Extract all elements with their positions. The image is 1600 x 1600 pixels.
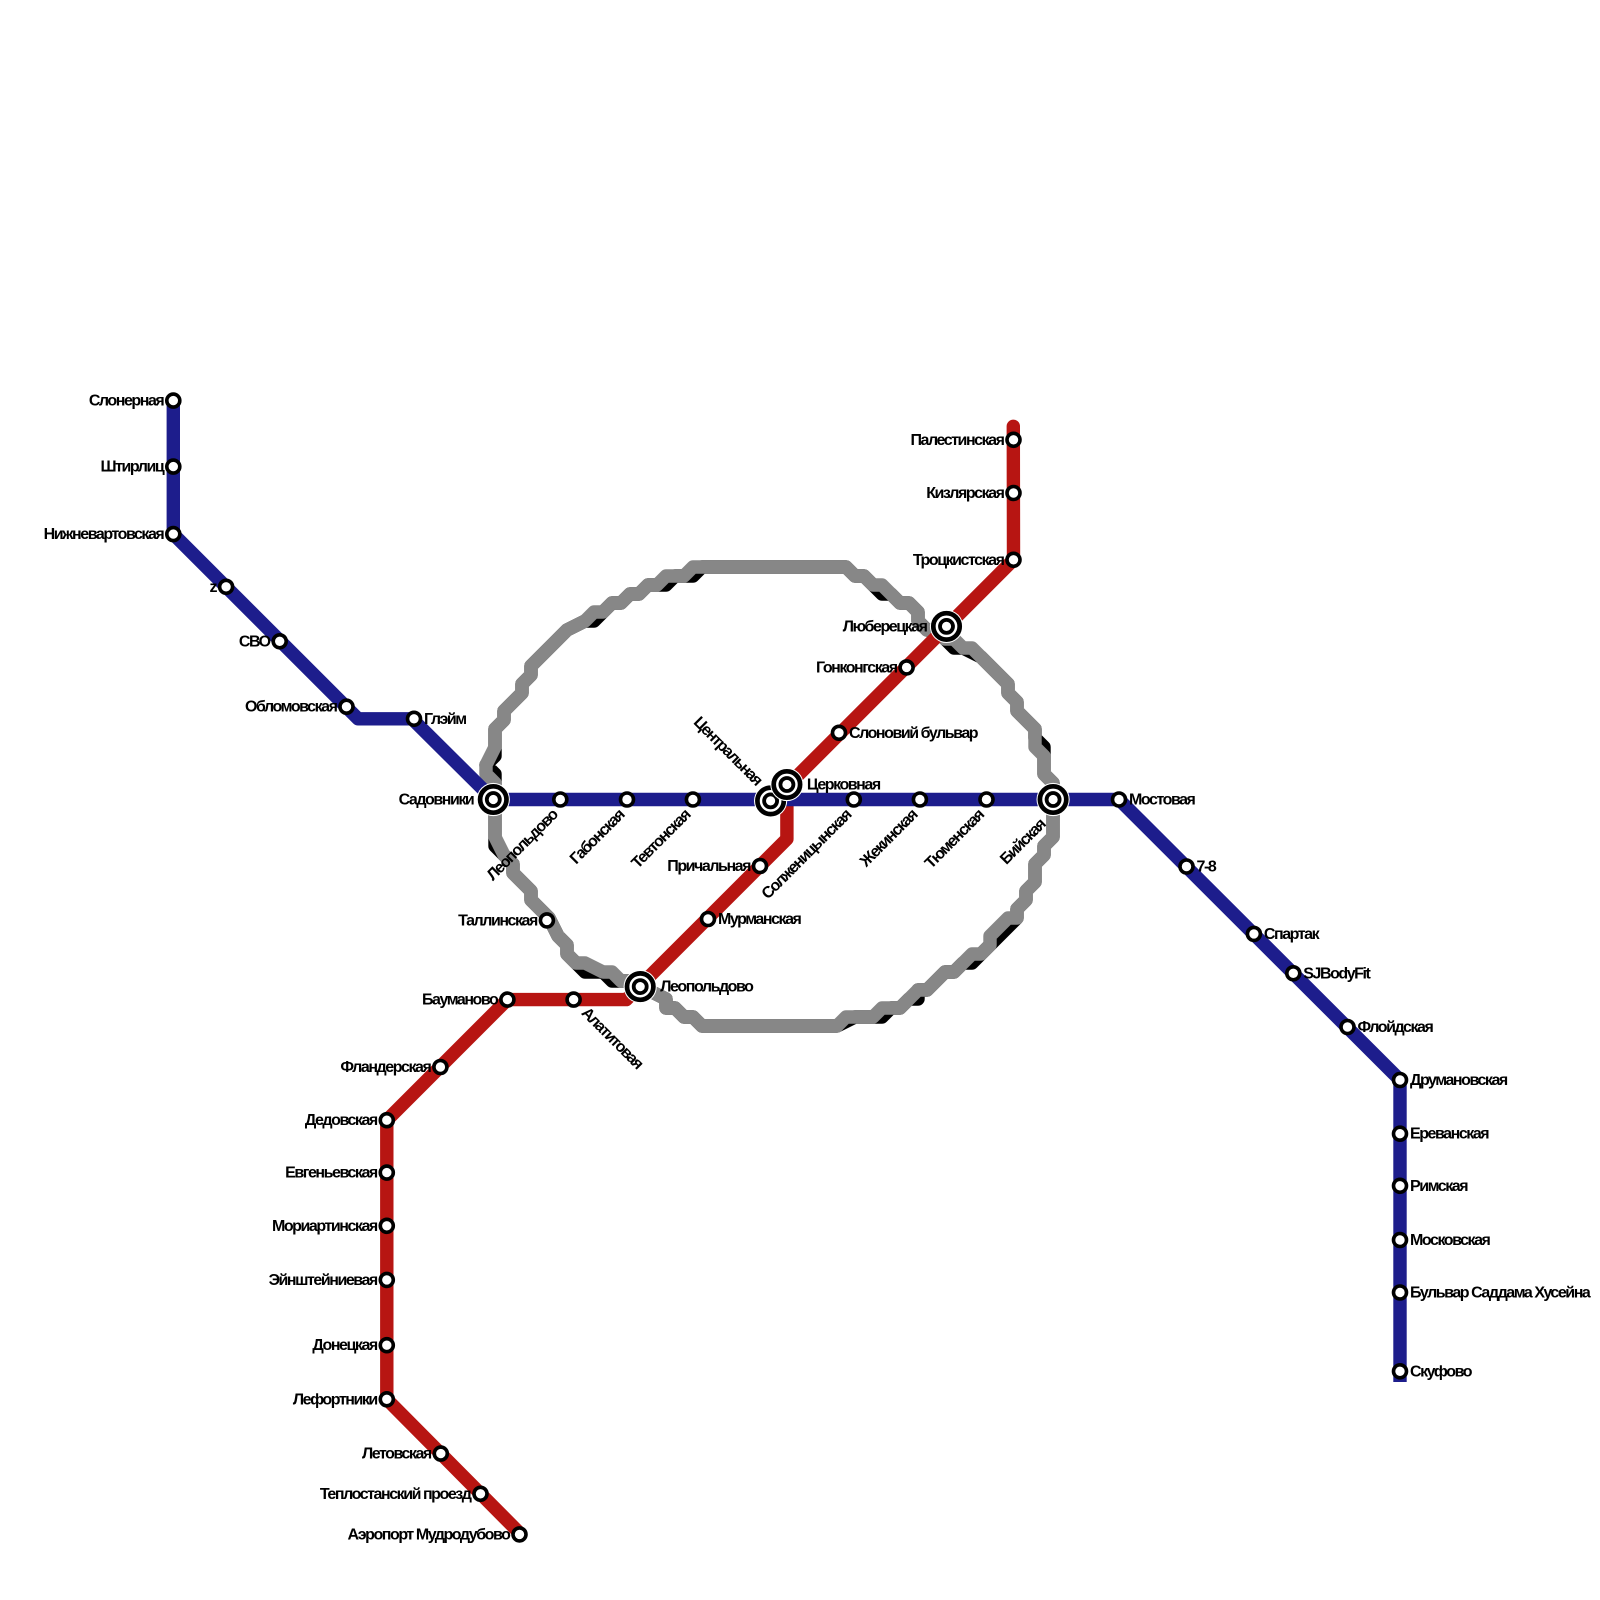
svg-text:Скуфово: Скуфово <box>1410 1363 1473 1380</box>
svg-text:Обломовская: Обломовская <box>245 699 338 716</box>
station Церковная <box>770 768 803 801</box>
svg-text:Римская: Римская <box>1410 1178 1468 1195</box>
station Скуфово <box>1394 1365 1407 1378</box>
svg-text:Мориартинская: Мориартинская <box>272 1218 378 1235</box>
station Лефортники <box>380 1393 393 1406</box>
svg-text:Причальная: Причальная <box>667 858 751 875</box>
svg-text:Палестинская: Палестинская <box>910 432 1004 449</box>
station Аэропорт Мудродубово <box>513 1528 526 1541</box>
svg-text:Флойдская: Флойдская <box>1358 1019 1434 1036</box>
ring line shadow <box>486 567 1053 1026</box>
station Спартак <box>1247 927 1260 940</box>
station Причальная <box>754 860 767 873</box>
svg-text:Бульвар Саддама Хусейна: Бульвар Саддама Хусейна <box>1410 1285 1591 1302</box>
svg-text:Мурманская: Мурманская <box>718 911 802 928</box>
red line <box>387 426 1014 1533</box>
station Глэйм <box>408 712 421 725</box>
station Леопольдово <box>554 793 567 806</box>
station Штирлиц <box>167 460 180 473</box>
svg-text:Московская: Московская <box>1410 1232 1491 1249</box>
station SJBodyFit <box>1287 967 1300 980</box>
station Летовская <box>434 1447 447 1460</box>
svg-text:SJBodyFit: SJBodyFit <box>1303 965 1371 982</box>
station Теплостанский проезд <box>474 1487 487 1500</box>
station Люберецкая <box>930 610 963 643</box>
svg-text:Глэйм: Глэйм <box>424 711 466 728</box>
svg-text:Друмановская: Друмановская <box>1410 1072 1508 1089</box>
svg-text:7-8: 7-8 <box>1197 859 1217 876</box>
ring line <box>486 567 1053 1026</box>
station СВО <box>273 635 286 648</box>
station Бийская <box>1037 783 1070 816</box>
station Слоновий бульвар <box>833 726 846 739</box>
svg-text:Донецкая: Донецкая <box>312 1337 378 1354</box>
station Кизлярская <box>1007 487 1020 500</box>
svg-text:Кизлярская: Кизлярская <box>926 485 1004 502</box>
svg-text:Ереванская: Ереванская <box>1410 1126 1489 1143</box>
svg-text:Таллинская: Таллинская <box>458 912 538 929</box>
station Солженицынская <box>847 793 860 806</box>
svg-text:Слоновий бульвар: Слоновий бульвар <box>849 725 979 742</box>
station Леопольдово <box>624 970 657 1003</box>
station Нижневартовская <box>167 528 180 541</box>
svg-text:Слонерная: Слонерная <box>89 393 165 410</box>
station Бауманово <box>501 993 514 1006</box>
station Палестинская <box>1007 433 1020 446</box>
svg-text:Церковная: Церковная <box>807 777 881 794</box>
svg-text:Штирлиц: Штирлиц <box>100 459 164 476</box>
svg-text:Эйнштейниевая: Эйнштейниевая <box>269 1272 378 1289</box>
station Тевтонская <box>686 793 699 806</box>
svg-text:СВО: СВО <box>239 633 271 650</box>
svg-text:Мостовая: Мостовая <box>1129 792 1196 809</box>
svg-text:Троцкистская: Троцкистская <box>913 552 1005 569</box>
station Троцкистская <box>1007 553 1020 566</box>
svg-text:Теплостанский проезд: Теплостанский проезд <box>320 1486 472 1503</box>
station Евгеньевская <box>380 1166 393 1179</box>
station Друмановская <box>1394 1074 1407 1087</box>
station Алатитовая <box>567 993 580 1006</box>
svg-text:Люберецкая: Люберецкая <box>843 618 928 635</box>
station Эйнштейниевая <box>380 1273 393 1286</box>
station Таллинская <box>540 914 553 927</box>
svg-text:Лефортники: Лефортники <box>293 1391 378 1408</box>
station Флойдская <box>1341 1021 1354 1034</box>
station Центральная <box>754 784 787 817</box>
station z <box>220 580 233 593</box>
blue line <box>173 404 1400 1382</box>
station Гонконгская <box>900 661 913 674</box>
station Мостовая <box>1113 793 1126 806</box>
station Фландерская <box>434 1061 447 1074</box>
station Мориартинская <box>380 1219 393 1232</box>
station Обломовская <box>340 700 353 713</box>
station Донецкая <box>380 1339 393 1352</box>
station 7-8 <box>1180 860 1193 873</box>
station Садовники <box>477 783 510 816</box>
station Дедовская <box>380 1114 393 1127</box>
station Римская <box>1394 1179 1407 1192</box>
svg-text:Аэропорт Мудродубово: Аэропорт Мудродубово <box>347 1526 511 1543</box>
station Тюменская <box>980 793 993 806</box>
svg-text:Летовская: Летовская <box>362 1446 432 1463</box>
svg-text:Леопольдово: Леопольдово <box>660 979 754 996</box>
svg-text:Фландерская: Фландерская <box>340 1059 431 1076</box>
svg-text:Гонконгская: Гонконгская <box>816 659 898 676</box>
station Жекинская <box>913 793 926 806</box>
svg-text:Спартак: Спартак <box>1264 926 1321 943</box>
svg-text:Бауманово: Бауманово <box>422 992 499 1009</box>
station Ереванская <box>1394 1127 1407 1140</box>
station Бульвар Саддама Хусейна <box>1394 1286 1407 1299</box>
station Слонерная <box>167 394 180 407</box>
svg-text:Нижневартовская: Нижневартовская <box>44 526 165 543</box>
svg-text:Садовники: Садовники <box>399 792 474 809</box>
svg-text:Евгеньевская: Евгеньевская <box>285 1165 378 1182</box>
svg-text:Дедовская: Дедовская <box>305 1112 378 1129</box>
station Габонская <box>621 793 634 806</box>
station Мурманская <box>702 913 715 926</box>
station Московская <box>1394 1234 1407 1247</box>
